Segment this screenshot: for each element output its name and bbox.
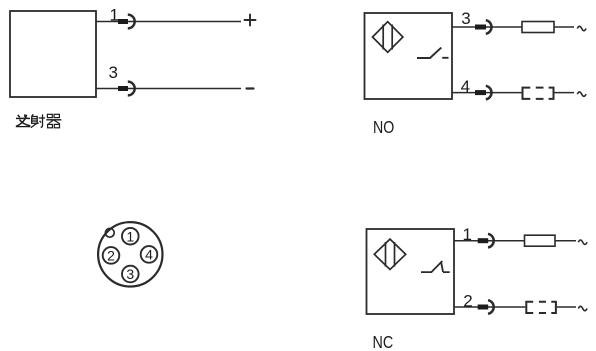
svg-text:NO: NO: [373, 117, 394, 137]
svg-text:1: 1: [110, 5, 119, 24]
svg-text:3: 3: [461, 9, 470, 28]
svg-text:1: 1: [463, 225, 472, 244]
svg-text:NC: NC: [373, 332, 394, 351]
svg-text:4: 4: [145, 247, 153, 263]
svg-text:3: 3: [126, 266, 134, 282]
svg-text:2: 2: [463, 291, 472, 310]
svg-text:4: 4: [461, 77, 470, 96]
svg-text:1: 1: [126, 228, 134, 244]
svg-text:2: 2: [107, 248, 115, 264]
svg-text:3: 3: [109, 63, 118, 82]
